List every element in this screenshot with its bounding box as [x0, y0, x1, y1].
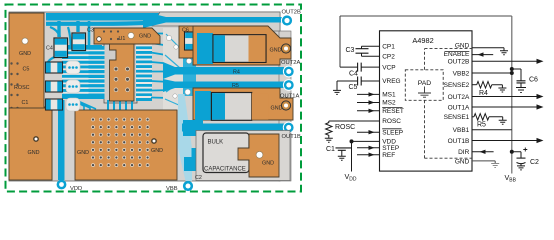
svg-text:VBB2: VBB2 — [453, 70, 470, 77]
OUT2B trace — [143, 13, 283, 28]
svg-text:C6: C6 — [182, 28, 189, 34]
SLEEP overline — [382, 128, 401, 130]
fanout traces right of U1 — [151, 34, 183, 99]
VBB via ring — [183, 181, 193, 191]
svg-text:C6: C6 — [529, 77, 538, 84]
node VDD junction — [350, 139, 354, 143]
pin SLEEP input arrow — [357, 131, 380, 133]
left column component C1 — [46, 98, 81, 111]
svg-text:ROSC: ROSC — [382, 118, 401, 125]
ground for C2 — [517, 164, 525, 170]
U1 footprint body — [104, 44, 137, 103]
svg-text:OUT1A: OUT1A — [280, 94, 299, 100]
svg-text:A4982: A4982 — [412, 36, 433, 45]
svg-text:GND: GND — [139, 34, 151, 40]
svg-text:OUT2A: OUT2A — [448, 94, 470, 101]
gray wedge top right — [152, 12, 280, 31]
svg-text:SENSE1: SENSE1 — [444, 114, 470, 121]
svg-text:BULK: BULK — [208, 140, 224, 146]
node C2 tap junction — [510, 150, 514, 154]
PCB-LAYOUT — [6, 5, 302, 193]
svg-text:OUT1A: OUT1A — [448, 104, 470, 111]
pin VREG wire — [337, 80, 380, 82]
ground for R4 — [498, 88, 506, 92]
svg-text:R5: R5 — [232, 83, 239, 89]
BULK GND copper pad — [238, 134, 279, 177]
left column component ROSC — [46, 80, 81, 93]
capacitor C5 — [358, 77, 362, 86]
svg-text:OUT2B: OUT2B — [448, 59, 470, 66]
svg-text:SENSE2: SENSE2 — [444, 82, 470, 89]
svg-text:ROSC: ROSC — [335, 124, 355, 131]
svg-text:CAPACITANCE: CAPACITANCE — [204, 167, 246, 173]
svg-text:CP1: CP1 — [382, 43, 395, 50]
svg-text:MS2: MS2 — [382, 100, 396, 107]
svg-text:BB: BB — [509, 177, 516, 183]
resistor ROSC — [326, 121, 332, 138]
capacitor C4 — [358, 63, 362, 72]
cyan trace bundle left of U1 — [62, 45, 102, 99]
svg-text:R4: R4 — [479, 90, 488, 97]
R5 trace — [163, 79, 294, 92]
svg-text:C4: C4 — [349, 71, 358, 78]
pin GND bottom wire — [472, 161, 495, 164]
PAD exposed pad box — [405, 70, 443, 101]
capacitor C3 — [356, 49, 369, 54]
C2 plus sign — [523, 148, 527, 152]
R4 to ground wire — [492, 85, 503, 88]
svg-text:OUT2A: OUT2A — [281, 60, 300, 66]
white gaps in right bundle — [136, 36, 152, 97]
svg-text:MS1: MS1 — [382, 92, 396, 99]
svg-text:C3: C3 — [87, 28, 94, 34]
svg-text:OUT1B: OUT1B — [448, 138, 470, 145]
resistor R5 — [474, 114, 489, 121]
svg-text:PAD: PAD — [418, 80, 432, 87]
pin DIR input arrow — [472, 151, 494, 153]
left strip stitching vias — [10, 62, 18, 129]
OUT1B trace — [182, 120, 294, 136]
wire VCP riser — [339, 16, 341, 67]
ground for GND bottom — [491, 164, 499, 168]
upper output component footprint — [197, 33, 266, 64]
svg-text:RESET: RESET — [382, 108, 404, 115]
svg-text:C5: C5 — [23, 67, 30, 73]
RESET overline — [382, 106, 402, 108]
svg-text:R5: R5 — [477, 122, 486, 129]
pin SENSE1 wire — [472, 116, 474, 118]
svg-text:C5: C5 — [349, 84, 358, 91]
svg-text:DIR: DIR — [458, 149, 470, 156]
svg-text:C2: C2 — [530, 159, 539, 166]
VBB supply label — [505, 173, 517, 183]
VDD feed riser — [351, 141, 353, 171]
svg-text:GND: GND — [28, 150, 40, 156]
pin OUT1A output wire — [472, 106, 537, 108]
svg-text:GND: GND — [262, 161, 274, 167]
lower right copper block — [193, 88, 293, 120]
OUT2B via ring — [281, 15, 292, 26]
C3 component — [72, 33, 86, 51]
white gaps in left bundle — [62, 51, 102, 93]
VDD supply label — [345, 172, 357, 182]
top-middle copper strip — [94, 28, 160, 44]
routing channel right of U1 — [163, 28, 183, 110]
GND pad top right — [281, 44, 290, 53]
svg-text:ROSC: ROSC — [14, 85, 30, 91]
svg-text:GND: GND — [271, 106, 283, 112]
PCB substrate — [9, 12, 291, 181]
top right big copper block — [193, 26, 291, 65]
via channel column — [183, 27, 196, 96]
U1 exposed pad copper — [110, 44, 135, 101]
svg-text:DD: DD — [349, 176, 357, 182]
R5 to ground wire — [489, 117, 503, 121]
capacitor C6 — [512, 69, 521, 81]
svg-text:REF: REF — [382, 152, 395, 159]
svg-text:VCP: VCP — [382, 64, 395, 71]
pin OUT1B output wire — [472, 140, 537, 142]
svg-text:GND: GND — [270, 48, 282, 54]
pin OUT2B output wire — [472, 60, 537, 62]
ground inside PAD — [418, 87, 431, 98]
left copper strip — [9, 13, 52, 180]
pin MS1 input arrow — [357, 93, 380, 95]
PCB outline green dashed border — [6, 5, 302, 192]
PCB labels — [14, 28, 283, 182]
ENABLE overline — [445, 51, 469, 53]
op-chip U1 A4982 body — [380, 31, 473, 171]
right pin name labels — [444, 43, 470, 166]
svg-text:GND: GND — [151, 148, 163, 154]
svg-text:R4: R4 — [233, 70, 240, 76]
left pin name labels — [382, 43, 404, 158]
pin VBB1 wire — [472, 129, 512, 131]
lower output component footprint — [195, 91, 268, 120]
GND pad mid right — [281, 101, 290, 110]
pin CP1 wire — [362, 46, 380, 49]
svg-text:GND: GND — [19, 51, 31, 57]
capacitor C2 polarized — [512, 152, 521, 158]
pale bottom-layer trace — [178, 94, 192, 181]
ground for R5 — [499, 120, 507, 124]
svg-text:GND: GND — [455, 43, 470, 50]
C6 copper pad area — [179, 26, 206, 58]
cyan pad column left of U1 — [89, 46, 105, 99]
capacitor C1 — [336, 148, 352, 150]
svg-text:C3: C3 — [346, 47, 355, 54]
svg-text:VBB1: VBB1 — [453, 127, 470, 134]
svg-text:C2: C2 — [195, 175, 202, 181]
cyan top band traces — [46, 17, 163, 62]
cyan pads right of U1 — [136, 31, 152, 101]
thermal via grid — [92, 118, 150, 167]
pin RESET input arrow — [357, 110, 380, 112]
ground for C1 — [338, 150, 346, 160]
resistor R4 — [477, 82, 492, 89]
bottom-left copper block — [9, 108, 52, 180]
pin CP2 wire — [362, 53, 380, 56]
U1 bottom fanout stubs — [108, 100, 132, 112]
svg-text:C4: C4 — [46, 46, 53, 52]
svg-text:GND: GND — [77, 150, 89, 156]
pin REF input arrow — [357, 154, 380, 156]
pin STEP input arrow — [357, 147, 380, 149]
svg-text:SLEEP: SLEEP — [382, 129, 403, 136]
ground for C5 — [333, 81, 341, 94]
pin VCP wire — [340, 66, 380, 68]
node VBB2 junction — [510, 71, 514, 75]
VBB top rail wire — [340, 16, 512, 174]
pin OUT2A output wire — [472, 96, 537, 98]
svg-text:OUT1B: OUT1B — [282, 134, 301, 140]
svg-text:OUT2B: OUT2B — [282, 10, 301, 16]
svg-text:CP2: CP2 — [382, 53, 395, 60]
ground for C6 — [516, 83, 526, 93]
R4 trace — [163, 62, 294, 79]
pin VDD wire — [352, 140, 380, 142]
C4 component — [54, 38, 68, 58]
pin SENSE2 wire — [472, 84, 477, 86]
left column component C5 — [46, 61, 81, 74]
node C6 tap junction — [510, 67, 514, 71]
pin MS2 input arrow — [357, 102, 380, 104]
svg-text:U1: U1 — [119, 36, 126, 42]
pin VBB2 wire — [472, 72, 512, 74]
BULK C2 pad cyan — [184, 148, 203, 171]
pin ROSC wire — [329, 120, 380, 122]
svg-text:C1: C1 — [22, 100, 29, 106]
ground for GND top — [500, 51, 508, 55]
svg-text:GND: GND — [455, 158, 470, 165]
bottom-center copper block — [75, 110, 177, 180]
pin GND top wire — [472, 48, 504, 51]
lower-left fanout traces — [64, 96, 96, 111]
svg-text:C1: C1 — [326, 146, 335, 153]
PAD dashed tie to GND pins — [425, 49, 473, 159]
ground for ROSC — [325, 138, 333, 142]
svg-text:VREG: VREG — [382, 78, 400, 85]
svg-text:ENABLE: ENABLE — [444, 51, 470, 58]
BULK capacitor footprint box — [196, 131, 290, 181]
pin ENABLE input arrow — [472, 54, 493, 56]
VDD trace — [57, 100, 67, 189]
C6 component — [185, 32, 197, 50]
